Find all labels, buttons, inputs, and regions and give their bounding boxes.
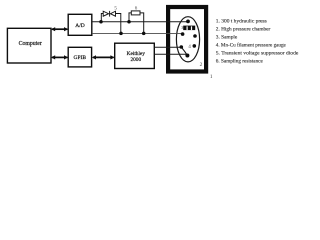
svg-text:5: 5 bbox=[114, 5, 117, 11]
svg-text:A/D: A/D bbox=[75, 23, 85, 29]
svg-text:2000: 2000 bbox=[131, 57, 142, 63]
svg-text:2: 2 bbox=[200, 62, 203, 68]
svg-text:1. 300 t hydraulic press: 1. 300 t hydraulic press bbox=[216, 18, 267, 24]
svg-text:1: 1 bbox=[210, 74, 213, 80]
svg-text:4. Mn-Cu filament pressure gau: 4. Mn-Cu filament pressure gauge bbox=[216, 41, 287, 48]
svg-text:GPIB: GPIB bbox=[74, 55, 87, 61]
svg-text:3: 3 bbox=[181, 25, 183, 30]
svg-text:Computer: Computer bbox=[19, 41, 42, 47]
svg-text:6. Sampling resistance: 6. Sampling resistance bbox=[216, 58, 264, 64]
svg-text:5. Transient voltage suppresso: 5. Transient voltage suppressor diode bbox=[216, 50, 299, 56]
svg-text:3. Sample: 3. Sample bbox=[216, 34, 238, 40]
svg-text:2. High pressure chamber: 2. High pressure chamber bbox=[216, 26, 271, 32]
